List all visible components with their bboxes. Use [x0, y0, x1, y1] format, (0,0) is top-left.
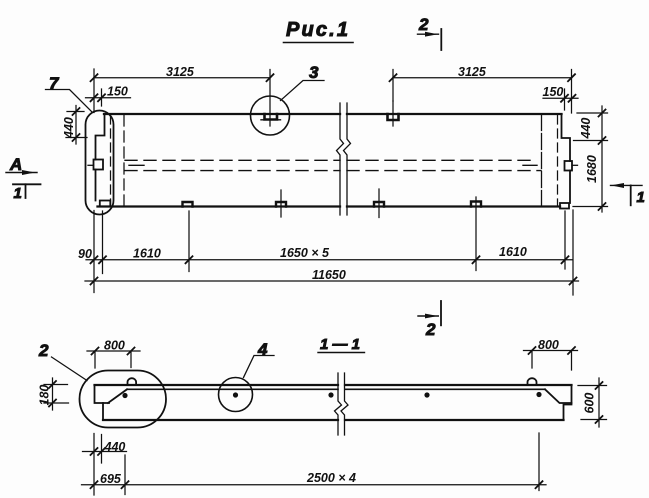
bottom dim extension lines: [94, 197, 573, 295]
rebar dots: [122, 392, 541, 398]
top loop in circle 3: [265, 114, 278, 120]
svg-text:1610: 1610: [133, 247, 161, 261]
section mark 2 lower: [418, 301, 441, 339]
bottom loop 1: [183, 202, 193, 207]
right end profile: [560, 114, 578, 209]
bottom loop 3: [374, 189, 384, 218]
dim 150 left: [86, 85, 131, 107]
oval detail balloon 2 (section): [80, 371, 167, 428]
detail circle 4: [219, 378, 253, 412]
svg-text:3125: 3125: [166, 65, 195, 79]
left end profile: [88, 114, 110, 207]
top loop right: [388, 101, 399, 126]
svg-text:1 — 1: 1 — 1: [320, 336, 360, 353]
dim 3125 left: [91, 65, 274, 126]
svg-text:2: 2: [425, 320, 436, 339]
svg-text:1650 × 5: 1650 × 5: [280, 246, 330, 260]
right joint line: [541, 115, 543, 207]
section mark 2 top: [418, 15, 442, 50]
dim 800 left (section): [87, 339, 140, 369]
svg-text:1: 1: [637, 189, 645, 206]
section top line B: [127, 388, 545, 390]
section loop right: [528, 378, 537, 385]
dim row 2: 11650: [85, 268, 579, 285]
svg-text:440: 440: [62, 117, 76, 139]
pocket lines: [129, 164, 537, 166]
svg-text:1680: 1680: [585, 155, 599, 183]
hidden dashed line lower: [125, 170, 541, 172]
svg-text:150: 150: [107, 85, 128, 99]
svg-text:600: 600: [583, 393, 597, 414]
label 3 leader: [281, 63, 325, 101]
dim 150 right: [543, 85, 579, 110]
dim 695 + 2500x4 (section bottom): [82, 471, 547, 488]
section mark 1 right: [611, 183, 645, 206]
svg-text:800: 800: [104, 339, 125, 353]
bottom loop 2: [276, 190, 286, 217]
section bottom line: [103, 419, 564, 421]
dim 3125 right: [390, 65, 576, 113]
svg-text:11650: 11650: [312, 268, 346, 282]
view arrow A: [6, 155, 37, 175]
section mark 1 left: [13, 184, 41, 202]
detail circle 3: [251, 96, 290, 135]
svg-text:2500 × 4: 2500 × 4: [306, 471, 356, 485]
right hidden dashed vertical: [557, 115, 559, 206]
title 1-1: [318, 336, 365, 353]
dim 440 left vertical: [62, 106, 87, 145]
svg-text:А: А: [9, 155, 22, 174]
beam bottom edge (plan): [98, 205, 561, 207]
svg-text:2: 2: [38, 341, 49, 360]
svg-text:800: 800: [538, 338, 559, 352]
oval detail balloon 7: [86, 111, 114, 215]
svg-text:2: 2: [418, 15, 429, 34]
svg-text:3: 3: [309, 63, 319, 82]
dim 440 + 1680 right vertical: [573, 106, 608, 212]
dim row 1: 90 1610 1650x5 1610: [78, 245, 572, 263]
svg-text:695: 695: [100, 472, 122, 486]
label 7 leader: [46, 74, 93, 113]
dim 180 (section left): [38, 378, 69, 410]
left hidden dashed verticals: [110, 115, 112, 206]
label 2 leader: [38, 341, 87, 381]
svg-text:3125: 3125: [458, 65, 487, 79]
section left end block: [95, 385, 128, 420]
svg-text:440: 440: [104, 440, 126, 454]
section top line A: [95, 384, 572, 386]
dim 440 (section bottom): [83, 440, 127, 455]
svg-text:90: 90: [78, 247, 92, 261]
svg-text:440: 440: [579, 118, 593, 140]
section loop left: [128, 378, 137, 385]
dim 600 (section right): [578, 378, 607, 427]
beam top edge (plan): [104, 113, 562, 115]
title Рис.1: [284, 19, 354, 43]
section right end: [545, 385, 572, 420]
bottom loop 4: [471, 202, 481, 207]
section bottom extension lines: [94, 433, 539, 495]
svg-text:Рис.1: Рис.1: [286, 19, 348, 41]
svg-text:1610: 1610: [499, 245, 527, 259]
svg-text:150: 150: [543, 85, 564, 99]
svg-text:180: 180: [38, 385, 52, 406]
label 4 leader: [244, 340, 275, 378]
hidden dashed line upper: [125, 159, 537, 161]
section break lines: [335, 373, 342, 435]
break lines (plan): [337, 103, 344, 215]
svg-text:1: 1: [14, 185, 22, 202]
dim 800 right (section): [524, 338, 578, 370]
